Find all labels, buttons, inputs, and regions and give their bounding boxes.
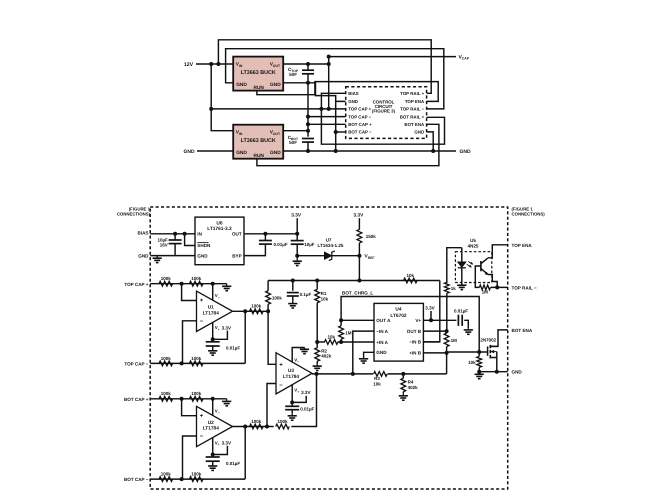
wire U2 V- stub [212, 399, 214, 416]
svg-text:10k: 10k [321, 296, 329, 301]
wire U1 V+ 3.3V supply [212, 322, 214, 339]
svg-text:LT1784: LT1784 [203, 310, 220, 316]
svg-text:GND: GND [270, 82, 281, 88]
svg-text:0.01µF: 0.01µF [226, 346, 240, 351]
buck converter LT3663 block at 233.2,56.6 [233, 57, 283, 91]
svg-text:402k: 402k [321, 354, 332, 359]
wire SHDN tie to IN [185, 234, 195, 246]
svg-text:3.3V: 3.3V [222, 325, 232, 330]
ground [478, 372, 480, 375]
resistor 100k U3 feedback [267, 426, 274, 428]
wire 12V vertical to buck2 VIN [211, 64, 233, 131]
svg-text:50F: 50F [289, 140, 297, 145]
svg-text:LT1634-1.25: LT1634-1.25 [318, 243, 344, 248]
resistor 10k to +IN A [317, 341, 325, 343]
wire TOP RAIL- row with 1M base resistor [491, 286, 508, 288]
capacitor 0.01uF U2 bypass [212, 455, 214, 458]
wire VREF riser to divider line [358, 256, 360, 281]
svg-text:100k: 100k [161, 356, 172, 361]
svg-text:OUT B: OUT B [407, 329, 422, 334]
svg-text:BOT ENA: BOT ENA [512, 328, 533, 333]
svg-text:BIAS: BIAS [348, 91, 359, 96]
svg-text:GND: GND [183, 149, 195, 155]
svg-text:BOT CAP +: BOT CAP + [348, 122, 372, 127]
svg-text:+IN B: +IN B [409, 351, 422, 356]
wire VCAP output [327, 55, 331, 59]
optocoupler U5 4N25 (dashed box) [455, 252, 491, 283]
svg-text:OUT A: OUT A [376, 318, 391, 323]
resistor 1M OUT A to +IN A [340, 320, 342, 326]
wire control GND left to ground line [336, 101, 346, 151]
node R1/R2 divider to +IN A [315, 340, 319, 344]
svg-text:402k: 402k [408, 385, 419, 390]
capacitor 0.01uF U3 bypass [291, 402, 293, 406]
wire U3 output line [312, 373, 373, 375]
svg-text:1M: 1M [451, 338, 458, 343]
svg-text:(FIGURE 3): (FIGURE 3) [372, 109, 396, 114]
capacitor 0.1uF filter [292, 281, 294, 291]
svg-text:10k: 10k [373, 381, 381, 386]
svg-text:GND: GND [138, 254, 149, 259]
svg-text:0.01µF: 0.01µF [274, 242, 288, 247]
svg-text:U3: U3 [288, 368, 294, 374]
svg-text:3.3V: 3.3V [425, 305, 435, 310]
svg-text:10µF: 10µF [304, 242, 315, 247]
svg-text:GND: GND [197, 253, 208, 258]
resistor R4 402k [402, 374, 404, 378]
svg-text:IN: IN [197, 232, 202, 237]
svg-text:U5: U5 [470, 238, 476, 243]
svg-text:100k: 100k [251, 304, 262, 309]
ground [212, 465, 214, 468]
svg-text:+IN A: +IN A [376, 340, 388, 345]
svg-text:BIAS: BIAS [138, 231, 149, 236]
wire U2 inverting input row / feedback [150, 478, 245, 480]
svg-text:TOP CAP −: TOP CAP − [124, 362, 148, 367]
wire U1 output node to summing node [266, 309, 270, 313]
svg-text:+: + [200, 413, 204, 419]
wire VOUT buck1 [283, 63, 329, 65]
wire U1 + input route [182, 284, 197, 301]
svg-text:U2: U2 [208, 420, 214, 426]
svg-text:100k: 100k [191, 472, 202, 477]
wire U2 output [233, 426, 269, 428]
wire U1 V- stub [212, 284, 214, 301]
svg-text:1M: 1M [482, 290, 489, 295]
svg-text:GND: GND [236, 82, 247, 88]
wire buck1 GND right to mid node [283, 82, 308, 84]
svg-text:0.01µF: 0.01µF [300, 406, 314, 411]
wire BOT_CHRG_L net from OUT A [341, 297, 479, 353]
wire to R4 node [388, 373, 447, 375]
resistor R2 402k [316, 342, 318, 348]
svg-text:TOP RAIL +: TOP RAIL + [400, 91, 424, 96]
wire BOT CAP+ pin [308, 123, 346, 125]
svg-text:U4: U4 [395, 307, 401, 313]
ground [226, 399, 228, 402]
svg-text:3.3V: 3.3V [222, 441, 232, 446]
svg-text:BOT CAP −: BOT CAP − [124, 477, 149, 482]
wire U1 inverting input row / feedback [150, 362, 245, 364]
node 12V junction [209, 62, 213, 66]
svg-text:RUN: RUN [253, 153, 264, 159]
svg-text:TOP CAP +: TOP CAP + [348, 107, 371, 112]
emitter with arrow [481, 269, 488, 275]
svg-text:−IN B: −IN B [409, 340, 422, 345]
wire TOP ENA route to buck1 RUN [257, 82, 438, 102]
wire U2 V+ 3.3V supply [212, 437, 214, 454]
svg-text:0.01µF: 0.01µF [226, 461, 240, 466]
light arrows [468, 262, 472, 265]
svg-text:TOP CAP −: TOP CAP − [348, 114, 371, 119]
wire U2 - input route [183, 436, 197, 479]
svg-text:CONNECTIONS): CONNECTIONS) [512, 212, 546, 217]
wire U2 + input route [182, 399, 197, 416]
ground under LED [461, 284, 463, 286]
op-amp U2 LT1784 triangle [197, 406, 233, 446]
ground at GND row [156, 256, 158, 259]
capacitor CTOP 50F [307, 64, 309, 70]
svg-text:LT3663 BUCK: LT3663 BUCK [241, 70, 276, 76]
wire -IN B row [423, 341, 439, 343]
wire source lead [490, 358, 497, 372]
svg-text:BOT CAP −: BOT CAP − [348, 130, 372, 135]
svg-text:BOT RAIL +: BOT RAIL + [400, 114, 425, 119]
wire U1 feedback vertical [244, 311, 246, 363]
svg-text:100k: 100k [161, 391, 172, 396]
ground under 10uF [296, 256, 298, 262]
capacitor 0.01uF on V+ [457, 315, 459, 326]
resistor R1 10k [316, 281, 318, 290]
svg-text:V+: V+ [415, 318, 421, 323]
svg-text:1M: 1M [345, 331, 352, 336]
svg-text:16V: 16V [160, 243, 168, 248]
svg-text:0.01µF: 0.01µF [454, 309, 468, 314]
ground [292, 301, 294, 304]
svg-text:1k: 1k [451, 286, 457, 291]
reference diode U7 LT1634-1.25 [325, 252, 332, 259]
svg-text:LT1784: LT1784 [203, 426, 220, 432]
svg-text:LT6702: LT6702 [390, 313, 407, 319]
wire TOP CAP+ / 12V bias line [211, 108, 346, 110]
svg-text:4N25: 4N25 [468, 244, 479, 249]
wire TOP RAIL- route H2 to buck1 GND [226, 49, 444, 109]
svg-text:TOP RAIL −: TOP RAIL − [512, 285, 537, 290]
ground [291, 413, 293, 416]
control circuit block (dashed) [346, 87, 427, 139]
wire mid-rail vertical (cap stack) [307, 83, 309, 137]
wire +IN B row [423, 352, 446, 354]
svg-text:0.1µF: 0.1µF [300, 292, 312, 297]
wire VREF divider line [268, 280, 440, 282]
svg-text:+: + [279, 362, 283, 368]
phototransistor in opto [480, 261, 482, 271]
svg-text:+: + [200, 298, 204, 304]
svg-text:LT3663 BUCK: LT3663 BUCK [241, 138, 276, 144]
wire U1 output [233, 310, 269, 312]
buck converter LT3663 block at 233.2,124.7 [233, 125, 283, 159]
svg-text:GND: GND [236, 150, 247, 156]
svg-text:RUN: RUN [253, 85, 264, 91]
svg-text:TOP ENA: TOP ENA [512, 243, 533, 248]
svg-text:−: − [279, 383, 283, 389]
resistor 100k to VREF line [267, 304, 269, 311]
resistor R3 10k [374, 372, 388, 377]
svg-text:TOP RAIL −: TOP RAIL − [400, 107, 424, 112]
svg-text:3.3V: 3.3V [291, 213, 302, 219]
svg-text:SHDN: SHDN [197, 243, 211, 248]
svg-text:100k: 100k [251, 419, 262, 424]
capacitor CBOT 50F [302, 138, 314, 140]
comparator U4 LT6702 [374, 303, 423, 361]
svg-text:BOT_CHRG_L: BOT_CHRG_L [342, 291, 373, 296]
svg-text:10k: 10k [407, 273, 415, 278]
wire BOT ENA route to buck2 RUN [257, 124, 439, 165]
wire VCAP vertical to TOP CAP+ line [328, 57, 330, 109]
svg-text:−: − [200, 434, 204, 440]
svg-text:3.3V: 3.3V [301, 390, 311, 395]
wire U1 out to U3 + input [268, 311, 276, 364]
wire V+ row with 3.3V tap [423, 319, 456, 321]
svg-text:BOT CAP +: BOT CAP + [124, 397, 149, 402]
svg-text:BYP: BYP [232, 253, 241, 258]
wire GND row bottom right [479, 371, 508, 373]
wire U4 GND to ground [364, 352, 374, 357]
wire control GND right to ground line [427, 132, 434, 151]
svg-text:U1: U1 [208, 305, 214, 311]
svg-text:2N7002: 2N7002 [480, 338, 496, 343]
wire U1 - input route [183, 321, 197, 364]
svg-text:100k: 100k [272, 296, 283, 301]
wire U3 V+ 3.3V [291, 384, 293, 402]
body arrow [491, 351, 497, 353]
wire TOP CAP- pin [308, 116, 346, 118]
ground [226, 284, 228, 287]
outer dashed border (FIGURE 1 CONNECTIONS) [150, 207, 508, 489]
wire gate node [479, 351, 487, 353]
svg-text:100k: 100k [277, 419, 288, 424]
ground [467, 328, 469, 330]
wire TOP RAIL+ route H1 [218, 40, 431, 94]
capacitor 0.01uF BYP [264, 234, 266, 241]
svg-text:−: − [200, 319, 204, 325]
svg-text:U6: U6 [216, 220, 222, 226]
svg-text:100k: 100k [161, 472, 172, 477]
resistor 10k gate pulldown [478, 352, 480, 356]
wire OUT B row [423, 330, 446, 332]
wire +IN B node down to R3/R4 line [446, 353, 448, 374]
capacitor 0.01uF U1 bypass [212, 339, 214, 342]
svg-text:100k: 100k [161, 276, 172, 281]
svg-text:10k: 10k [468, 360, 476, 365]
wire U2 feedback vertical [244, 427, 246, 480]
svg-text:LT1784: LT1784 [283, 374, 300, 380]
svg-text:GND: GND [414, 130, 424, 135]
svg-text:OUT: OUT [232, 232, 242, 237]
wire LED anode feed [447, 248, 462, 284]
wire +IN A [341, 341, 374, 343]
wire U6 OUT row [244, 233, 297, 235]
svg-text:GND: GND [512, 370, 523, 375]
capacitor 10uF 16V input [174, 234, 176, 240]
svg-text:LT1761-3.3: LT1761-3.3 [207, 226, 232, 232]
svg-text:U7: U7 [326, 237, 332, 242]
svg-text:BOT ENA: BOT ENA [404, 122, 425, 127]
wire -IN A route to U3 output [353, 331, 374, 374]
svg-text:TOP ENA: TOP ENA [405, 99, 425, 104]
svg-text:10k: 10k [327, 335, 335, 340]
resistor 10k across VREF line to -IN B [404, 278, 418, 283]
ground [212, 349, 214, 352]
LED inside opto [461, 248, 463, 262]
op-amp U3 LT1784 triangle [276, 353, 312, 394]
svg-text:GND: GND [348, 99, 358, 104]
wire +IN B node to MOSFET gate [447, 351, 480, 353]
svg-text:150k: 150k [366, 234, 377, 239]
svg-text:12V: 12V [184, 62, 194, 68]
capacitor 10uF output [296, 234, 298, 241]
wire reference row [295, 254, 299, 258]
svg-text:GND: GND [460, 149, 472, 155]
regulator U6 LT1761-3.3 [195, 217, 244, 265]
wire BOT ENA to MOSFET drain [490, 330, 507, 347]
wire VOUT buck2 to mid rail [284, 130, 308, 132]
op-amp U1 LT1784 triangle [197, 291, 233, 331]
svg-text:50F: 50F [289, 72, 297, 77]
ground [316, 364, 318, 367]
wire U3 V- to ground [292, 348, 304, 363]
wire U1 non-inverting input row [150, 283, 227, 285]
ground [402, 393, 404, 396]
svg-text:100k: 100k [191, 276, 202, 281]
wire buck1 GND jog to control GND column [308, 83, 336, 102]
svg-text:100k: 100k [191, 391, 202, 396]
svg-text:TOP CAP +: TOP CAP + [124, 282, 148, 287]
wire BIAS to BOT RAIL+ route [321, 93, 444, 144]
wire U3 - input route [267, 384, 276, 427]
svg-text:GND: GND [376, 350, 387, 355]
svg-text:−IN A: −IN A [376, 329, 388, 334]
svg-text:3.3V: 3.3V [353, 213, 364, 219]
wire BOT CAP- pin [336, 131, 346, 133]
svg-text:GND: GND [270, 150, 281, 156]
svg-text:100k: 100k [191, 356, 202, 361]
wire U2 non-inverting input row [150, 398, 227, 400]
wire drain lead [490, 345, 498, 347]
svg-text:CONNECTIONS): CONNECTIONS) [117, 212, 151, 217]
resistor 1M OUT B to +IN B [446, 331, 448, 333]
